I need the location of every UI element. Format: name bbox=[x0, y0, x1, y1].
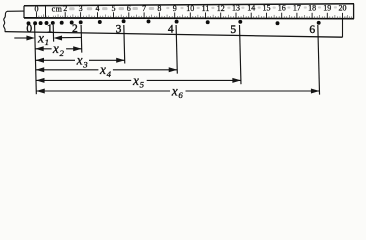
svg-text:x: x bbox=[76, 53, 83, 68]
svg-text:x: x bbox=[132, 73, 139, 88]
svg-text:6: 6 bbox=[127, 4, 131, 13]
svg-text:9: 9 bbox=[173, 4, 177, 13]
svg-text:3: 3 bbox=[82, 59, 88, 69]
svg-text:cm: cm bbox=[52, 4, 63, 13]
svg-text:18: 18 bbox=[308, 4, 316, 13]
line 6 bbox=[318, 25, 320, 95]
ruler seam line bbox=[45, 6, 47, 18]
x2 dimension arrow bbox=[35, 48, 81, 50]
tape right edge bbox=[342, 19, 344, 38]
line 1 bbox=[52, 25, 54, 42]
svg-text:3: 3 bbox=[79, 4, 83, 13]
ruler top edge bbox=[24, 4, 354, 6]
svg-text:4: 4 bbox=[96, 4, 100, 13]
x4 dimension arrow bbox=[36, 69, 178, 71]
svg-text:2: 2 bbox=[63, 4, 67, 13]
ruler minor ticks bbox=[39, 14, 351, 18]
svg-text:5: 5 bbox=[140, 80, 145, 90]
ticker tape dots bbox=[27, 19, 321, 25]
dimension arrows bbox=[14, 36, 319, 94]
svg-text:6: 6 bbox=[309, 24, 315, 36]
dimension label patches bbox=[37, 34, 186, 95]
dimension labels x1..x6 bbox=[37, 30, 183, 100]
svg-text:2: 2 bbox=[72, 23, 78, 35]
svg-text:x: x bbox=[52, 41, 59, 56]
tape ticks / extension lines 0-6 bbox=[35, 25, 320, 95]
svg-text:16: 16 bbox=[278, 4, 286, 13]
svg-text:4: 4 bbox=[107, 69, 112, 79]
ruler body bbox=[24, 4, 354, 19]
svg-text:7: 7 bbox=[142, 4, 146, 13]
ruler bottom edge bbox=[24, 17, 354, 20]
svg-text:11: 11 bbox=[202, 4, 210, 13]
ruler left edge bbox=[23, 6, 25, 18]
tape top edge (left of ruler) bbox=[7, 10, 25, 12]
ruler scale numbers bbox=[35, 3, 347, 13]
svg-text:x: x bbox=[37, 30, 44, 45]
ruler smudge marks between numbers bbox=[69, 6, 337, 10]
svg-text:2: 2 bbox=[60, 48, 65, 58]
svg-text:14: 14 bbox=[247, 4, 255, 13]
svg-text:0: 0 bbox=[26, 23, 32, 35]
svg-text:19: 19 bbox=[323, 4, 331, 13]
svg-text:20: 20 bbox=[339, 3, 347, 12]
svg-text:1: 1 bbox=[45, 37, 49, 47]
svg-text:3: 3 bbox=[116, 23, 122, 35]
svg-text:4: 4 bbox=[168, 24, 174, 36]
ruler major ticks bbox=[37, 12, 343, 19]
line 5 bbox=[240, 25, 241, 84]
svg-text:x: x bbox=[171, 83, 178, 98]
line 3 bbox=[123, 25, 126, 64]
svg-text:10: 10 bbox=[186, 4, 194, 13]
tape bottom edge bbox=[5, 32, 343, 38]
tape position labels 0-6 bbox=[26, 23, 315, 36]
x6 dimension arrow bbox=[36, 90, 319, 92]
line 2 bbox=[80, 25, 83, 53]
x1 dimension arrows (outside pair) bbox=[14, 37, 27, 39]
svg-text:6: 6 bbox=[178, 90, 183, 100]
ruler right edge bbox=[353, 4, 355, 19]
svg-text:5: 5 bbox=[112, 4, 116, 13]
svg-text:12: 12 bbox=[217, 4, 225, 13]
line 0 bbox=[35, 25, 37, 94]
svg-text:x: x bbox=[99, 62, 106, 77]
line 4 bbox=[176, 25, 177, 74]
ticker tape bbox=[3, 11, 342, 37]
svg-text:13: 13 bbox=[232, 4, 240, 13]
svg-text:0: 0 bbox=[35, 4, 39, 13]
svg-text:17: 17 bbox=[293, 4, 301, 13]
svg-text:1: 1 bbox=[47, 23, 53, 35]
x5 dimension arrow bbox=[36, 79, 241, 81]
x3 dimension arrow bbox=[35, 59, 124, 61]
svg-text:5: 5 bbox=[230, 24, 236, 36]
svg-text:8: 8 bbox=[157, 4, 161, 13]
tape torn left edge bbox=[3, 11, 7, 31]
svg-text:15: 15 bbox=[263, 4, 271, 13]
